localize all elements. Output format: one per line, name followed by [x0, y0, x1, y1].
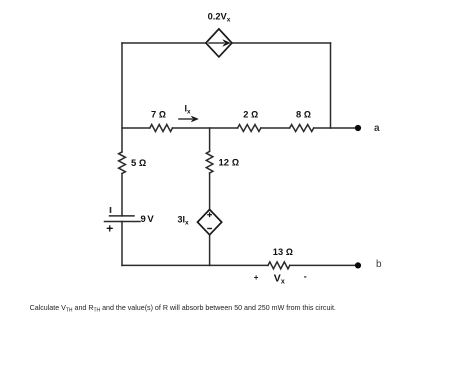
resistor R 5ohm zigzag — [119, 152, 126, 174]
svg-text:b: b — [376, 259, 382, 270]
svg-text:12 Ω: 12 Ω — [219, 158, 240, 169]
battery V1 9V top plate — [110, 215, 135, 217]
wire bottom horizontal: 13ohm to node b — [290, 264, 358, 266]
resistor R 7ohm zigzag — [150, 125, 173, 132]
wire middle horizontal: 2ohm to 8ohm — [261, 127, 290, 129]
node a dot — [355, 125, 361, 131]
svg-text:-: - — [304, 272, 307, 282]
svg-text:9 V: 9 V — [141, 214, 155, 225]
dependent source U1 0.2Vx diamond — [206, 29, 232, 57]
svg-text:+: + — [254, 273, 259, 282]
svg-text:13 Ω: 13 Ω — [273, 247, 293, 257]
wire bottom horizontal: left node to 13ohm — [122, 264, 268, 266]
wire middle vertical: junction to 12ohm — [209, 128, 211, 151]
svg-text:Vx: Vx — [274, 273, 285, 286]
wire top horizontal right of 0.2Vx source — [232, 42, 331, 44]
wire left branch between 5ohm and battery — [121, 174, 123, 216]
svg-text:Calculate VTH and RTH and the: Calculate VTH and RTH and the value(s) o… — [30, 304, 336, 313]
battery V1 9V bottom plate — [105, 221, 141, 223]
svg-text:7 Ω: 7 Ω — [151, 109, 166, 119]
wire middle horizontal: 8ohm to node a — [314, 127, 358, 129]
wire right vertical branch — [330, 43, 332, 128]
battery minus tick — [110, 208, 112, 212]
svg-text:3Ix: 3Ix — [178, 215, 190, 227]
resistor R 13ohm zigzag — [268, 262, 290, 269]
wire middle vertical: 12ohm to 3Ix source — [209, 173, 211, 210]
node b dot — [355, 262, 361, 268]
wire middle horizontal: left node to 7ohm — [122, 127, 150, 129]
current arrow Ix — [178, 116, 198, 122]
wire left branch below battery — [121, 222, 123, 266]
dependent source U2 minus mark — [207, 228, 212, 230]
dependent source U2 3Ix diamond — [198, 210, 222, 235]
resistor R 2ohm zigzag — [238, 125, 261, 132]
wire middle vertical: 3Ix source to bottom wire — [209, 235, 211, 266]
wire top horizontal left of 0.2Vx source — [122, 42, 206, 44]
svg-text:8 Ω: 8 Ω — [296, 109, 311, 119]
svg-text:0.2Vx: 0.2Vx — [208, 11, 231, 23]
svg-text:2 Ω: 2 Ω — [243, 109, 258, 119]
wire middle horizontal: 7ohm to 2ohm across junction — [172, 127, 237, 129]
resistor R 8ohm zigzag — [290, 125, 314, 132]
dependent source U2 plus mark — [207, 212, 212, 217]
dependent source U1 arrow inside — [208, 40, 230, 46]
svg-text:+: + — [106, 222, 113, 236]
resistor R 12ohm zigzag — [206, 151, 213, 173]
svg-text:5 Ω: 5 Ω — [131, 158, 146, 169]
svg-text:Ix: Ix — [185, 103, 192, 115]
svg-text:a: a — [374, 123, 380, 134]
wire top-left vertical segment (left branch upper) — [121, 43, 123, 152]
